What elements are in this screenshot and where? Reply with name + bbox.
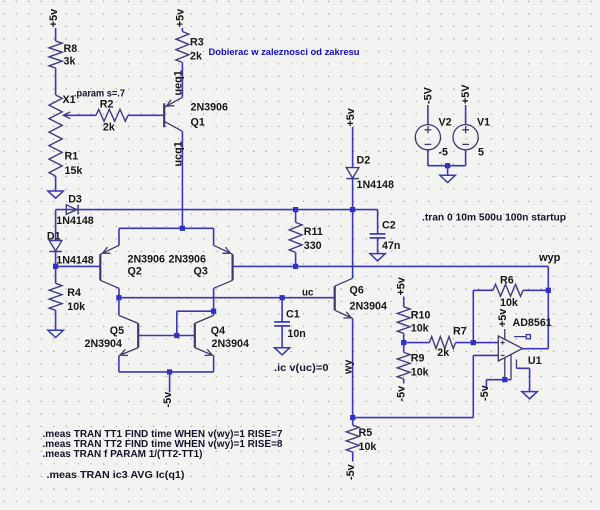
svg-text:2k: 2k — [103, 121, 115, 133]
svg-text:Q1: Q1 — [191, 117, 205, 129]
svg-text:Dobierac w zaleznosci od zakre: Dobierac w zaleznosci od zakresu — [209, 46, 360, 57]
svg-text:V1: V1 — [477, 117, 490, 129]
svg-text:-5v: -5v — [345, 464, 357, 480]
svg-text:15k: 15k — [65, 165, 83, 177]
svg-text:uc: uc — [302, 287, 314, 298]
svg-text:3k: 3k — [64, 56, 76, 68]
svg-text:-5v: -5v — [162, 392, 174, 408]
svg-text:R2: R2 — [100, 98, 114, 110]
svg-text:2k: 2k — [190, 51, 202, 63]
svg-text:D3: D3 — [68, 193, 82, 205]
svg-text:2N3906: 2N3906 — [128, 254, 165, 266]
svg-text:-5v: -5v — [479, 385, 491, 401]
svg-text:C1: C1 — [286, 309, 300, 321]
svg-text:47n: 47n — [382, 240, 400, 252]
svg-text:10k: 10k — [500, 297, 518, 309]
svg-text:-5V: -5V — [423, 86, 435, 104]
svg-text:10k: 10k — [67, 301, 85, 313]
svg-text:D1: D1 — [47, 231, 61, 243]
svg-text:R11: R11 — [304, 226, 323, 238]
svg-text:R3: R3 — [190, 37, 204, 49]
svg-text:R10: R10 — [411, 309, 431, 321]
svg-text:ucq1: ucq1 — [173, 141, 185, 166]
svg-text:1N4148: 1N4148 — [56, 255, 93, 267]
svg-text:.tran 0 10m 500u 100n startup: .tran 0 10m 500u 100n startup — [422, 212, 566, 223]
svg-text:+5v: +5v — [175, 9, 187, 27]
svg-text:R8: R8 — [64, 43, 78, 55]
svg-text:2k: 2k — [437, 347, 449, 359]
svg-text:Q6: Q6 — [350, 285, 364, 297]
svg-text:1N4148: 1N4148 — [56, 215, 93, 227]
svg-text:R7: R7 — [453, 326, 467, 338]
svg-text:5: 5 — [478, 147, 484, 159]
svg-text:R9: R9 — [411, 352, 425, 364]
svg-text:1N4148: 1N4148 — [357, 179, 394, 191]
svg-text:D2: D2 — [357, 155, 371, 167]
svg-text:+5v: +5v — [48, 9, 60, 27]
svg-text:ueq1: ueq1 — [173, 70, 185, 95]
svg-text:R6: R6 — [500, 275, 514, 287]
svg-text:-5v: -5v — [396, 386, 408, 402]
svg-text:R5: R5 — [359, 427, 373, 439]
svg-text:U1: U1 — [528, 355, 542, 367]
svg-text:Q2: Q2 — [128, 265, 142, 277]
svg-text:.meas TRAN ic3 AVG Ic(q1): .meas TRAN ic3 AVG Ic(q1) — [47, 470, 185, 481]
svg-text:10k: 10k — [411, 366, 429, 378]
svg-text:2N3904: 2N3904 — [85, 338, 122, 350]
svg-text:+5v: +5v — [396, 277, 408, 295]
svg-text:.ic v(uc)=0: .ic v(uc)=0 — [274, 363, 329, 374]
svg-text:+5V: +5V — [460, 84, 472, 104]
svg-text:2N3906: 2N3906 — [169, 254, 206, 266]
svg-text:C2: C2 — [382, 220, 396, 232]
svg-text:V2: V2 — [439, 117, 452, 129]
svg-text:+5v: +5v — [345, 108, 357, 126]
svg-text:R4: R4 — [67, 287, 81, 299]
svg-text:Q3: Q3 — [194, 265, 208, 277]
svg-text:Q4: Q4 — [211, 325, 225, 337]
svg-text:2N3904: 2N3904 — [212, 338, 249, 350]
svg-text:10k: 10k — [359, 441, 377, 453]
svg-text:R1: R1 — [65, 151, 79, 163]
svg-text:AD8561: AD8561 — [513, 317, 552, 329]
svg-text:+5v: +5v — [497, 309, 509, 327]
svg-text:2N3904: 2N3904 — [350, 300, 387, 312]
svg-text:-5: -5 — [439, 147, 449, 159]
svg-text:Q5: Q5 — [110, 325, 124, 337]
svg-text:10n: 10n — [287, 328, 305, 340]
svg-text:10k: 10k — [411, 323, 429, 335]
svg-text:.param s=.7: .param s=.7 — [74, 88, 126, 99]
svg-text:2N3906: 2N3906 — [191, 102, 228, 114]
svg-text:wyp: wyp — [538, 252, 561, 264]
svg-text:.meas TRAN f PARAM 1/(TT2-TT1): .meas TRAN f PARAM 1/(TT2-TT1) — [43, 449, 203, 460]
svg-text:330: 330 — [304, 240, 322, 252]
svg-text:wy: wy — [342, 360, 354, 375]
